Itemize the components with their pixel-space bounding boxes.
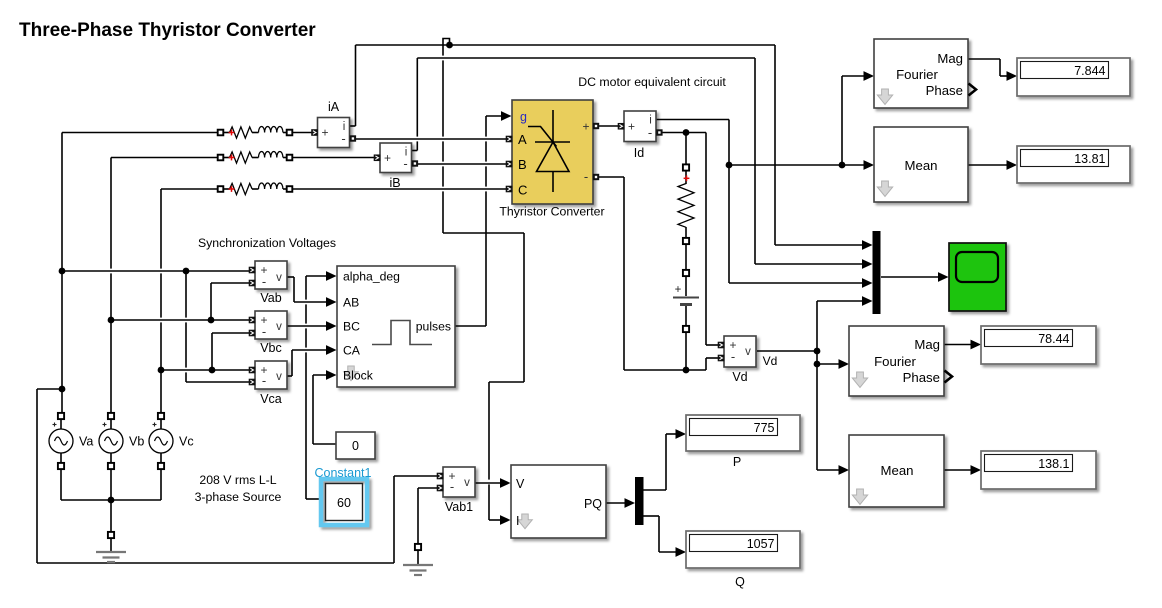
svg-text:Vca: Vca (260, 392, 282, 406)
svg-text:-: - (341, 131, 345, 146)
svg-text:Thyristor Converter: Thyristor Converter (499, 205, 604, 219)
svg-text:Vb: Vb (129, 435, 144, 449)
svg-text:iB: iB (389, 176, 400, 190)
svg-text:iA: iA (328, 100, 340, 114)
svg-text:g: g (520, 110, 527, 124)
svg-text:Mean: Mean (905, 158, 938, 173)
svg-text:Three-Phase Thyristor Converte: Three-Phase Thyristor Converter (19, 20, 316, 41)
svg-text:v: v (464, 477, 470, 489)
svg-text:-: - (262, 324, 266, 339)
svg-text:C: C (518, 183, 527, 198)
svg-text:Vd: Vd (732, 370, 747, 384)
svg-text:Vab: Vab (260, 291, 281, 305)
svg-text:v: v (276, 371, 282, 383)
svg-text:-: - (584, 169, 588, 184)
svg-text:Vc: Vc (179, 435, 194, 449)
svg-text:v: v (276, 321, 282, 333)
svg-text:Mag: Mag (914, 337, 940, 352)
svg-text:7.844: 7.844 (1074, 64, 1105, 78)
svg-text:+: + (384, 151, 391, 165)
svg-text:Block: Block (343, 369, 374, 383)
svg-text:Va: Va (79, 435, 93, 449)
svg-text:13.81: 13.81 (1074, 152, 1105, 166)
svg-text:+: + (675, 284, 682, 296)
svg-text:-: - (262, 373, 266, 388)
svg-text:775: 775 (754, 421, 775, 435)
svg-text:v: v (745, 346, 751, 358)
svg-text:+: + (628, 119, 635, 133)
svg-text:Fourier: Fourier (896, 67, 938, 82)
svg-text:CA: CA (343, 344, 361, 358)
svg-text:+: + (582, 120, 589, 134)
svg-text:-: - (731, 349, 735, 364)
svg-text:AB: AB (343, 296, 359, 310)
svg-text:Phase: Phase (903, 370, 940, 385)
svg-text:v: v (276, 272, 282, 284)
svg-text:P: P (733, 455, 741, 469)
svg-text:Q: Q (735, 575, 745, 589)
svg-text:Vd: Vd (763, 354, 778, 368)
svg-text:Constant1: Constant1 (315, 466, 372, 480)
svg-text:+: + (321, 126, 328, 140)
svg-text:-: - (450, 479, 454, 494)
svg-text:0: 0 (352, 439, 359, 453)
svg-text:pulses: pulses (416, 320, 451, 334)
svg-text:1057: 1057 (747, 537, 775, 551)
svg-text:Id: Id (634, 146, 644, 160)
svg-text:78.44: 78.44 (1038, 332, 1069, 346)
svg-text:60: 60 (337, 496, 351, 510)
svg-text:Synchronization Voltages: Synchronization Voltages (198, 236, 336, 250)
svg-text:Mag: Mag (937, 51, 963, 66)
svg-text:3-phase Source: 3-phase Source (195, 490, 282, 504)
svg-text:-: - (403, 156, 407, 171)
svg-text:I: I (516, 514, 519, 528)
svg-text:-: - (262, 274, 266, 289)
svg-text:138.1: 138.1 (1038, 457, 1069, 471)
svg-text:PQ: PQ (584, 497, 602, 511)
svg-text:208 V rms L-L: 208 V rms L-L (199, 473, 276, 487)
svg-text:Vbc: Vbc (260, 341, 282, 355)
svg-text:B: B (518, 157, 527, 172)
svg-text:Mean: Mean (881, 463, 914, 478)
svg-text:alpha_deg: alpha_deg (343, 270, 400, 284)
svg-text:-: - (648, 125, 652, 140)
svg-text:Phase: Phase (926, 83, 963, 98)
svg-text:DC motor equivalent circuit: DC motor equivalent circuit (578, 75, 726, 89)
svg-text:Fourier: Fourier (874, 354, 916, 369)
svg-text:Vab1: Vab1 (445, 500, 473, 514)
svg-text:V: V (516, 477, 525, 491)
svg-text:A: A (518, 132, 527, 147)
svg-text:BC: BC (343, 320, 360, 334)
